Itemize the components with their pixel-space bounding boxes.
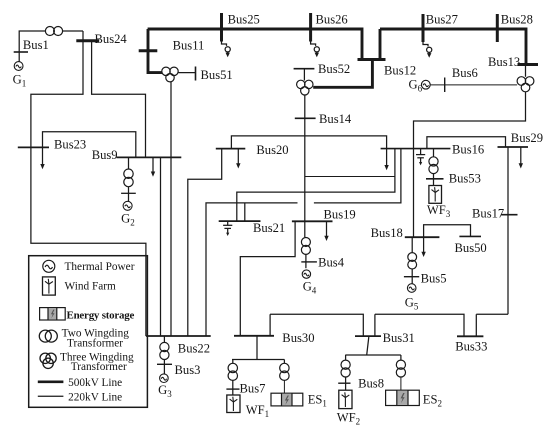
- bus bar Bus14: [295, 117, 316, 119]
- load arrow at Bus9: [151, 157, 155, 176]
- svg-text:Bus22: Bus22: [178, 342, 210, 356]
- 220kV interconnect Bus33-Bus29 riser: [476, 314, 508, 336]
- legend 220kV line symbol: [38, 395, 64, 397]
- svg-text:G5: G5: [405, 296, 419, 312]
- bus bar Bus17: [501, 214, 518, 216]
- svg-text:Bus14: Bus14: [319, 112, 352, 126]
- svg-text:WF3: WF3: [427, 203, 451, 219]
- legend three winding transformer symbol: [40, 353, 56, 368]
- wind farm WF3 box: [429, 186, 442, 204]
- wire Bus14 junction to Bus20 and Bus16: [231, 136, 386, 166]
- svg-text:G6: G6: [409, 78, 423, 94]
- bus bar Bus1: [14, 51, 28, 53]
- load arrow at Bus29: [519, 147, 523, 169]
- wire Bus24 left leg to long left line down to Bus22: [31, 42, 146, 336]
- svg-text:Bus23: Bus23: [54, 138, 86, 152]
- two-winding transformer at Bus3: [160, 342, 169, 374]
- svg-text:Wind Farm: Wind Farm: [65, 281, 117, 293]
- energy storage ES1 box: [271, 393, 303, 406]
- bus bar Bus26: [309, 13, 312, 42]
- generator G3: [160, 374, 169, 383]
- bus bar Bus30: [234, 335, 274, 337]
- wire Bus22 to G3 transformer: [163, 336, 165, 342]
- wire Bus29 down to Bus33: [507, 147, 509, 314]
- load arrow at Bus19: [324, 221, 328, 241]
- breaker hook under Bus27: [423, 42, 432, 58]
- two-winding transformer at Bus5: [408, 237, 417, 283]
- wire Bus1 to transformer to Bus24: [19, 31, 83, 52]
- two-winding transformer at Bus4: [301, 238, 310, 269]
- wire Bus30 to splitter rail: [232, 336, 284, 363]
- wire Bus9 down to Bus22: [160, 157, 162, 336]
- wire Bus23 to Bus9: [43, 132, 136, 158]
- svg-text:Bus26: Bus26: [316, 13, 348, 27]
- bus bar Bus18: [405, 236, 440, 238]
- svg-text:Bus30: Bus30: [282, 331, 314, 345]
- bus bar Bus53: [426, 178, 444, 180]
- svg-text:ES2: ES2: [423, 393, 442, 409]
- svg-text:Bus17: Bus17: [472, 207, 504, 221]
- svg-text:Energy storage: Energy storage: [67, 309, 135, 321]
- wire Bus24 right leg to Bus9: [92, 42, 146, 157]
- 500kV wire Bus11 to three-winding transformer: [148, 29, 162, 73]
- two-winding transformer at Bus53: [429, 149, 438, 186]
- two-winding transformer Bus1/Bus24: [45, 27, 54, 36]
- load arrow at Bus20: [236, 149, 240, 169]
- bus bar Bus29: [498, 146, 529, 148]
- generator G2: [123, 201, 132, 210]
- svg-text:Bus29: Bus29: [511, 131, 543, 145]
- bus bar Bus8: [338, 382, 350, 384]
- load arrow at Bus18: [421, 237, 425, 257]
- wire Bus16 to Bus21: [237, 149, 395, 222]
- legend two winding transformer symbol: [39, 330, 57, 342]
- svg-text:Bus7: Bus7: [240, 382, 266, 396]
- svg-text:Bus9: Bus9: [92, 148, 118, 162]
- wire Bus20 left leg down to Bus22: [188, 149, 222, 336]
- 500kV line Bus25-Bus26 to Bus12: [148, 29, 362, 60]
- svg-text:Transformer: Transformer: [71, 361, 127, 373]
- wire Bus19 column to Bus16 drop: [305, 176, 395, 178]
- svg-text:Bus12: Bus12: [384, 64, 416, 78]
- 500kV line Bus27-Bus28 to Bus12 and Bus13: [380, 29, 526, 65]
- svg-text:Bus18: Bus18: [371, 226, 403, 240]
- legend energy storage symbol: [40, 308, 66, 320]
- bus bar Bus6: [444, 78, 446, 93]
- wire Bus16 riser to Bus29: [427, 137, 506, 149]
- svg-text:Bus16: Bus16: [452, 143, 484, 157]
- two-winding transformer at ES2: [396, 360, 405, 390]
- bus bar Bus12: [358, 58, 386, 61]
- wire Bus31 to splitter rail: [345, 337, 401, 360]
- wind farm WF2 box: [339, 390, 352, 408]
- bus bar Bus3: [157, 363, 172, 365]
- svg-text:Bus6: Bus6: [452, 66, 478, 80]
- svg-text:Bus25: Bus25: [228, 13, 260, 27]
- 500kV wire Bus12 to Bus52 transformer: [313, 60, 372, 88]
- generator G5: [407, 284, 416, 293]
- three-winding transformer at Bus13: [517, 77, 534, 92]
- bus bar Bus9: [117, 156, 182, 158]
- svg-text:Bus8: Bus8: [358, 377, 384, 391]
- 220kV interconnect Bus30-Bus31: [270, 314, 363, 336]
- wire transformer Bus51 down to Bus22: [170, 82, 172, 336]
- two-winding transformer at Bus7: [228, 363, 237, 395]
- svg-text:Bus31: Bus31: [383, 331, 415, 345]
- three-winding transformer at Bus51: [162, 67, 178, 82]
- shunt capacitor at Bus21: [223, 221, 232, 236]
- energy storage ES2 box: [386, 390, 420, 405]
- bus bar Bus33: [457, 335, 483, 337]
- bus bar Bus23: [18, 146, 49, 148]
- svg-text:Bus50: Bus50: [455, 241, 487, 255]
- svg-text:Bus19: Bus19: [324, 207, 356, 221]
- bus bar at G2: [121, 192, 136, 194]
- wire Bus19 down to Bus30: [240, 221, 295, 335]
- svg-text:G2: G2: [121, 212, 135, 228]
- wire Bus52 to three-winding transformer: [303, 69, 305, 81]
- wind farm WF1 box: [227, 395, 240, 413]
- svg-text:G3: G3: [158, 383, 172, 399]
- wire Bus13 transformer down and across to Bus18: [414, 92, 526, 237]
- svg-text:G4: G4: [303, 280, 317, 296]
- svg-text:Bus3: Bus3: [175, 363, 201, 377]
- svg-text:Transformer: Transformer: [67, 337, 123, 349]
- legend 500kV line symbol: [38, 380, 64, 383]
- shunt capacitor at Bus16: [416, 149, 425, 166]
- generator G1: [14, 62, 23, 71]
- bus bar Bus7: [226, 388, 239, 390]
- svg-text:500kV Line: 500kV Line: [68, 377, 122, 389]
- svg-text:Bus20: Bus20: [256, 143, 288, 157]
- wire Bus13 bar to transformer: [525, 65, 527, 77]
- svg-text:Bus11: Bus11: [173, 39, 205, 53]
- bus bar Bus50: [459, 235, 481, 237]
- two-winding transformer at Bus8: [341, 360, 350, 390]
- generator G6: [421, 80, 430, 89]
- bus bar Bus51: [195, 67, 197, 81]
- bus bar Bus24: [76, 39, 99, 42]
- svg-text:WF1: WF1: [246, 403, 269, 419]
- bus bar Bus28: [496, 14, 499, 42]
- svg-text:Bus4: Bus4: [318, 256, 345, 270]
- bus bar Bus20: [216, 148, 246, 150]
- wire transformer to Bus51: [178, 72, 195, 74]
- legend wind farm symbol: [43, 277, 56, 295]
- svg-text:Bus24: Bus24: [95, 32, 128, 46]
- svg-text:Bus51: Bus51: [201, 68, 233, 82]
- breaker hook under Bus26: [311, 42, 320, 58]
- bus bar Bus11: [139, 49, 158, 52]
- wire Bus18 to Bus50: [424, 225, 471, 237]
- svg-text:Bus52: Bus52: [318, 62, 350, 76]
- svg-text:Bus1: Bus1: [23, 38, 49, 52]
- two-winding transformer at ES1: [280, 363, 289, 393]
- wire G6 to Bus6 to Bus13 transformer: [430, 84, 517, 86]
- bus bar Bus25: [220, 13, 223, 42]
- legend thermal power symbol: [43, 260, 55, 272]
- svg-text:Bus27: Bus27: [426, 13, 458, 27]
- breaker hook under Bus25: [222, 42, 231, 58]
- svg-text:Bus5: Bus5: [421, 272, 447, 286]
- svg-text:G1: G1: [13, 73, 27, 89]
- bus bar Bus52: [294, 68, 315, 70]
- svg-text:Bus33: Bus33: [455, 340, 487, 354]
- svg-text:WF2: WF2: [337, 411, 360, 427]
- svg-text:ES1: ES1: [308, 393, 327, 409]
- bus bar Bus16: [381, 148, 451, 150]
- bus bar Bus27: [422, 14, 425, 42]
- legend box: [29, 256, 148, 408]
- bus bar Bus22: [146, 335, 211, 337]
- bus bar Bus13: [518, 63, 539, 66]
- svg-text:Bus28: Bus28: [501, 13, 533, 27]
- two-winding transformer at G2: [124, 169, 133, 178]
- load arrow at Bus16 left: [384, 165, 388, 170]
- svg-text:Bus13: Bus13: [488, 55, 520, 69]
- bus bar Bus19: [292, 220, 333, 222]
- wire Bus16 to Bus22: [206, 149, 401, 336]
- svg-text:220kV Line: 220kV Line: [68, 392, 122, 404]
- svg-text:Thermal Power: Thermal Power: [65, 261, 135, 273]
- load arrow at Bus23: [40, 147, 44, 169]
- wire Bus1 to G1: [18, 52, 20, 62]
- svg-text:Bus21: Bus21: [253, 221, 285, 235]
- wire transformer to G2: [128, 187, 130, 202]
- bus bar Bus21: [219, 220, 261, 222]
- svg-text:Bus53: Bus53: [449, 172, 481, 186]
- generator G4: [302, 270, 310, 278]
- bus bar Bus31: [355, 335, 381, 337]
- bus bar Bus4: [301, 261, 317, 263]
- wire Bus52 transformer down to Bus14 and Bus19 column: [304, 95, 306, 237]
- bus bar Bus5: [404, 276, 419, 278]
- 220kV interconnect Bus31-Bus33: [375, 314, 464, 336]
- wire Bus9 to G2 transformer: [128, 157, 130, 169]
- three-winding transformer at Bus52: [297, 80, 313, 95]
